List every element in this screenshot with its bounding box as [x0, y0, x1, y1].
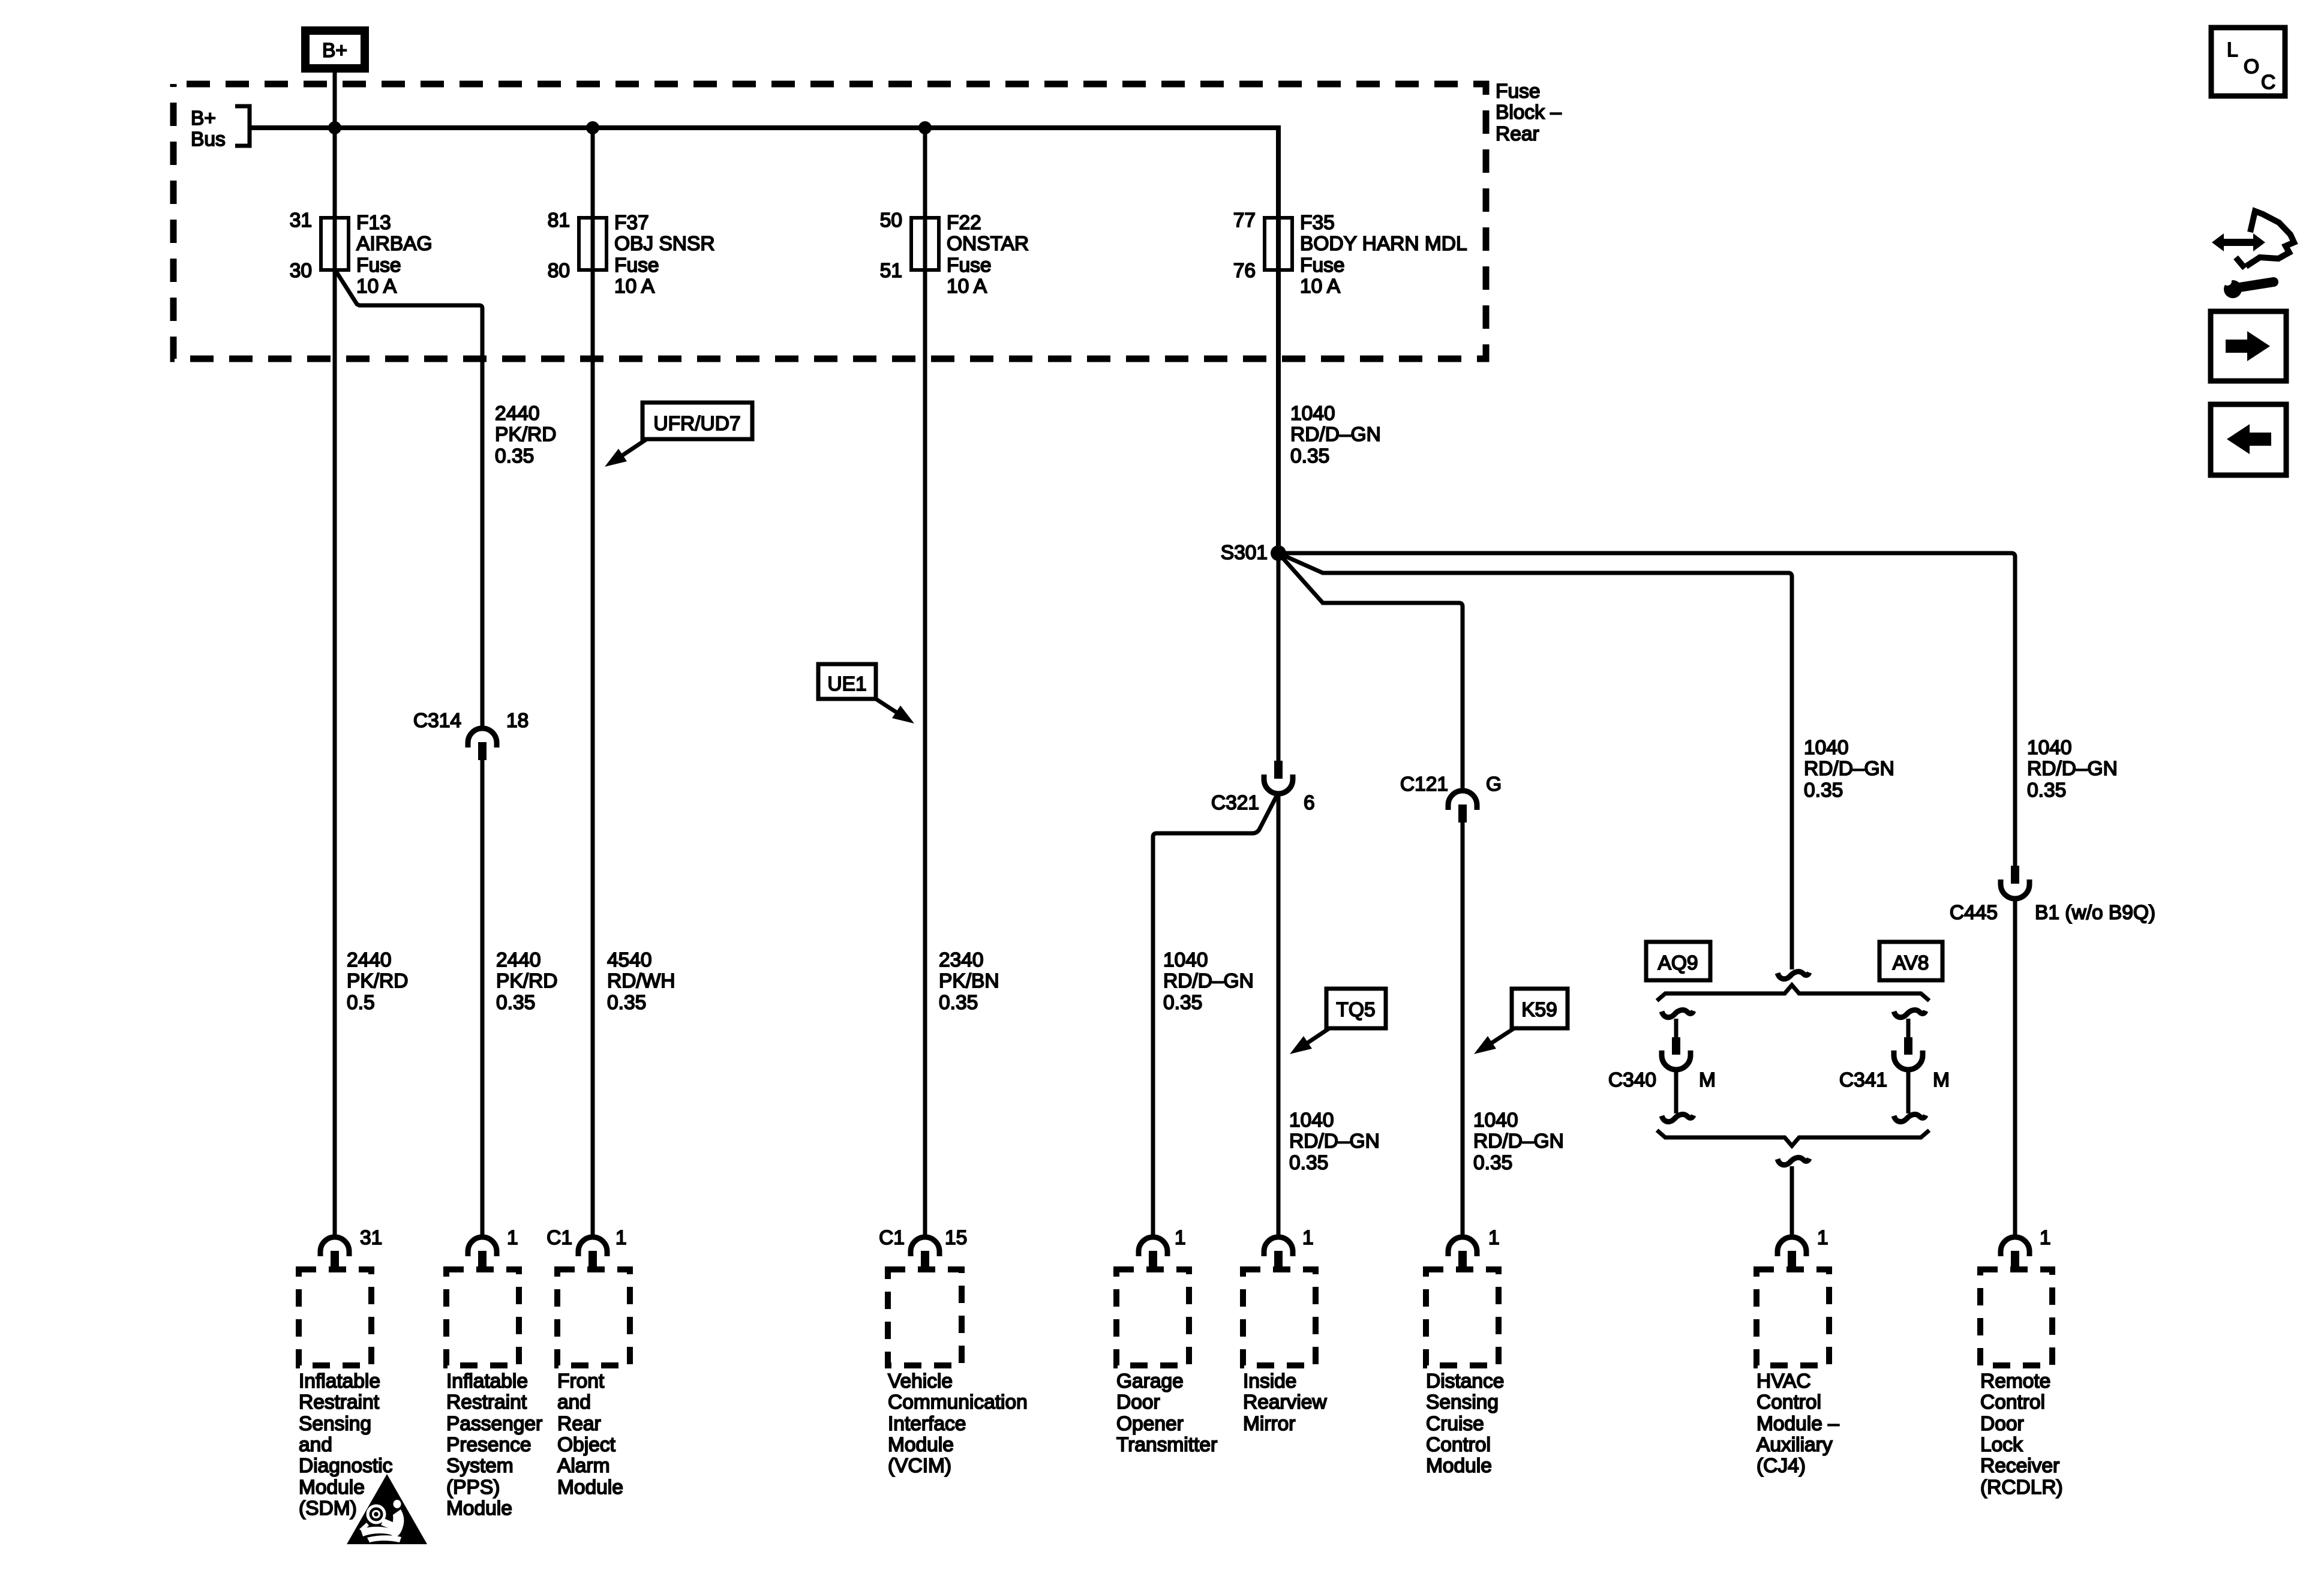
svg-text:2440: 2440 — [495, 403, 540, 425]
svg-text:2340: 2340 — [939, 949, 984, 971]
svg-text:2440: 2440 — [347, 949, 392, 971]
brace (top) spanning AQ9/AV8 — [1657, 985, 1929, 1001]
svg-text:1040: 1040 — [1804, 737, 1849, 759]
svg-text:C1: C1 — [879, 1227, 905, 1249]
wire: F13 pin 30 branch to PPS (2440 PK/RD 0.35) — [336, 271, 482, 730]
svg-text:Module: Module — [446, 1497, 512, 1520]
module pin connector (Inflatable Restraint Sensing and Diagnostic Module (SDM)) — [320, 1227, 382, 1269]
svg-text:1: 1 — [615, 1227, 627, 1249]
module label: Vehicle Communication Interface Module (VCIM) — [888, 1370, 1028, 1477]
module label: Garage Door Opener Transmitter — [1116, 1370, 1217, 1456]
svg-text:81: 81 — [548, 209, 570, 232]
svg-text:Sensing: Sensing — [1426, 1391, 1499, 1413]
svg-text:0.35: 0.35 — [1290, 445, 1329, 467]
wire label 2440 PK/RD 0.5 — [347, 949, 408, 1014]
svg-text:Fuse: Fuse — [1300, 254, 1344, 277]
svg-text:31: 31 — [360, 1227, 382, 1249]
module pin connector (Vehicle Communication Interface Module (VCIM)) — [879, 1227, 967, 1269]
fuse F35 (BODY HARN MDL Fuse 10 A) — [1233, 209, 1467, 298]
svg-text:Garage: Garage — [1116, 1370, 1184, 1392]
svg-text:PK/BN: PK/BN — [939, 970, 999, 992]
module pin connector (Remote Control Door Lock Receiver (RCDLR)) — [2001, 1227, 2051, 1269]
wire: F22 to VCIM (2340 PK/BN 0.35) — [923, 128, 927, 1239]
svg-text:51: 51 — [880, 260, 902, 282]
svg-text:Fuse: Fuse — [614, 254, 659, 277]
svg-text:Bus: Bus — [191, 128, 226, 151]
svg-text:4540: 4540 — [607, 949, 652, 971]
splice node S301 — [1221, 542, 1286, 564]
node: bus junction at F37 — [586, 121, 599, 134]
svg-text:Interface: Interface — [888, 1413, 966, 1435]
wire: B+ bus horizontal — [250, 125, 1278, 130]
svg-text:Module: Module — [1426, 1455, 1492, 1477]
node: bus junction at F13 — [328, 121, 341, 134]
svg-text:System: System — [446, 1455, 514, 1477]
wire: F37 to Front/Rear Object Alarm Module (4540 RD/WH 0.35) — [591, 128, 595, 1239]
svg-text:77: 77 — [1233, 209, 1256, 232]
svg-text:C314: C314 — [413, 710, 461, 732]
module pin connector (Inflatable Restraint Passenger Presence System (PPS) Module) — [468, 1227, 518, 1269]
svg-text:18: 18 — [506, 710, 529, 732]
svg-text:F13: F13 — [356, 212, 391, 234]
svg-text:Module: Module — [299, 1476, 365, 1499]
svg-text:0.35: 0.35 — [1473, 1152, 1512, 1174]
svg-text:RD/D–GN: RD/D–GN — [2027, 758, 2118, 780]
svg-text:Diagnostic: Diagnostic — [299, 1455, 392, 1477]
svg-text:6: 6 — [1304, 792, 1315, 814]
svg-text:Door: Door — [1116, 1391, 1160, 1413]
svg-text:UFR/UD7: UFR/UD7 — [653, 413, 740, 435]
wire: brace to HVAC module — [1790, 1166, 1794, 1239]
svg-text:Fuse: Fuse — [947, 254, 991, 277]
svg-text:1: 1 — [1175, 1227, 1186, 1249]
svg-text:UE1: UE1 — [827, 673, 866, 695]
svg-text:RD/D–GN: RD/D–GN — [1804, 758, 1894, 780]
break symbol below C340 — [1662, 1115, 1694, 1122]
break symbol above C341 — [1894, 1010, 1926, 1017]
break symbol above C340 — [1662, 1010, 1694, 1017]
svg-text:1040: 1040 — [1163, 949, 1208, 971]
svg-text:Inside: Inside — [1243, 1370, 1296, 1392]
svg-text:C340: C340 — [1608, 1069, 1656, 1091]
svg-text:C121: C121 — [1400, 773, 1448, 795]
svg-text:Object: Object — [557, 1434, 616, 1456]
svg-text:Rearview: Rearview — [1243, 1391, 1327, 1413]
svg-text:Control: Control — [1756, 1391, 1821, 1413]
svg-text:C341: C341 — [1839, 1069, 1887, 1091]
svg-text:PK/RD: PK/RD — [495, 424, 556, 446]
svg-text:C1: C1 — [547, 1227, 572, 1249]
circuit label K59 callout box — [1474, 989, 1568, 1054]
fuse block label — [1496, 80, 1562, 145]
circuit label UE1 callout box — [818, 664, 914, 724]
connector C314 pin 18 — [413, 710, 529, 760]
svg-text:Presence: Presence — [446, 1434, 532, 1456]
node: bus junction at F22 — [918, 121, 932, 134]
svg-text:S301: S301 — [1221, 542, 1268, 564]
break symbol below C341 — [1894, 1115, 1926, 1122]
svg-text:Control: Control — [1980, 1391, 2045, 1413]
svg-text:0.35: 0.35 — [607, 992, 646, 1014]
svg-text:1: 1 — [1817, 1227, 1828, 1249]
svg-text:(VCIM): (VCIM) — [888, 1455, 951, 1477]
svg-text:Receiver: Receiver — [1980, 1455, 2059, 1477]
wire label 2440 PK/RD 0.35 (upper) — [495, 403, 556, 467]
wire: B+ feed into fuse F13 — [333, 73, 337, 270]
connector C121 pin G — [1400, 773, 1502, 822]
svg-text:Alarm: Alarm — [557, 1455, 609, 1477]
svg-text:L: L — [2227, 39, 2238, 61]
svg-text:80: 80 — [548, 260, 570, 282]
svg-text:Passenger: Passenger — [446, 1413, 542, 1435]
svg-text:Front: Front — [557, 1370, 605, 1392]
fuse F22 (ONSTAR Fuse 10 A) — [880, 209, 1029, 298]
module box: Front and Rear Object Alarm Module — [557, 1269, 630, 1365]
connector C321 pin 6 — [1211, 761, 1315, 814]
svg-text:HVAC: HVAC — [1756, 1370, 1811, 1392]
svg-text:Restraint: Restraint — [299, 1391, 380, 1413]
svg-text:(PPS): (PPS) — [446, 1476, 500, 1499]
wire: C121 to Distance Sensing module — [1461, 822, 1465, 1239]
module box: Inflatable Restraint Passenger Presence System (PPS) Module — [446, 1269, 519, 1365]
svg-text:G: G — [1486, 773, 1502, 795]
module pin connector (Garage Door Opener Transmitter) — [1139, 1227, 1186, 1269]
B+ bus label — [191, 107, 226, 151]
svg-text:RD/D–GN: RD/D–GN — [1473, 1130, 1564, 1152]
svg-text:and: and — [557, 1391, 591, 1413]
svg-text:10 A: 10 A — [947, 275, 987, 298]
wire below C340 — [1674, 1068, 1679, 1113]
svg-text:Transmitter: Transmitter — [1116, 1434, 1217, 1456]
svg-text:Distance: Distance — [1426, 1370, 1504, 1392]
svg-text:1040: 1040 — [2027, 737, 2072, 759]
wire label 2440 PK/RD 0.35 (lower) — [496, 949, 557, 1014]
svg-text:2440: 2440 — [496, 949, 541, 971]
svg-text:0.35: 0.35 — [1289, 1152, 1328, 1174]
wire: C321 to Inside Rearview Mirror — [1277, 792, 1281, 1239]
fuse F37 (OBJ SNSR Fuse 10 A) — [548, 209, 715, 298]
svg-text:BODY HARN MDL: BODY HARN MDL — [1300, 233, 1467, 255]
module pin connector (Distance Sensing Cruise Control Module) — [1448, 1227, 1500, 1269]
svg-text:B+: B+ — [322, 40, 347, 62]
module box: HVAC Control Module - Auxiliary (CJ4) — [1756, 1269, 1829, 1365]
fuse F13 (AIRBAG Fuse 10 A) — [290, 209, 433, 298]
module box: Inside Rearview Mirror — [1243, 1269, 1316, 1365]
circuit label UFR/UD7 callout box — [605, 403, 752, 467]
svg-text:B1 (w/o B9Q): B1 (w/o B9Q) — [2035, 902, 2155, 924]
svg-text:RD/WH: RD/WH — [607, 970, 675, 992]
svg-text:0.35: 0.35 — [496, 992, 535, 1014]
svg-text:50: 50 — [880, 209, 902, 232]
svg-text:F22: F22 — [947, 212, 981, 234]
wire: S301 to HVAC branch — [1278, 553, 1792, 969]
svg-text:RD/D–GN: RD/D–GN — [1289, 1130, 1380, 1152]
svg-text:(SDM): (SDM) — [299, 1497, 357, 1520]
wire label 1040 RD/D-GN 0.35 (HVAC branch) — [1804, 737, 1894, 801]
wire: S301 to C445/RCDLR (top branch) — [1278, 553, 2015, 867]
svg-text:Module: Module — [888, 1434, 954, 1456]
brace (bottom) spanning C340/C341 — [1657, 1130, 1929, 1146]
svg-text:Rear: Rear — [1496, 123, 1539, 145]
svg-text:10 A: 10 A — [1300, 275, 1341, 298]
svg-text:0.35: 0.35 — [1804, 779, 1843, 801]
svg-text:RD/D–GN: RD/D–GN — [1163, 970, 1254, 992]
wire label 1040 RD/D-GN 0.35 (RCDLR branch) — [2027, 737, 2118, 801]
svg-text:C321: C321 — [1211, 792, 1259, 814]
svg-text:(RCDLR): (RCDLR) — [1980, 1476, 2063, 1499]
svg-text:OBJ SNSR: OBJ SNSR — [614, 233, 715, 255]
wire label 1040 RD/D-GN 0.35 (mirror branch) — [1289, 1109, 1380, 1174]
svg-text:0.35: 0.35 — [2027, 779, 2066, 801]
svg-text:0.35: 0.35 — [939, 992, 978, 1014]
module pin connector (Front and Rear Object Alarm Module) — [547, 1227, 626, 1269]
module box: Vehicle Communication Interface Module (VCIM) — [888, 1269, 962, 1365]
svg-text:Module: Module — [557, 1476, 623, 1499]
svg-text:0.35: 0.35 — [495, 445, 534, 467]
svg-text:O: O — [2244, 56, 2259, 78]
svg-text:C445: C445 — [1950, 902, 1998, 924]
svg-text:Inflatable: Inflatable — [299, 1370, 380, 1392]
svg-text:Block –: Block – — [1496, 101, 1562, 124]
svg-text:AIRBAG: AIRBAG — [356, 233, 433, 255]
wire: C445 to RCDLR module — [2013, 897, 2017, 1239]
module pin connector (Inside Rearview Mirror) — [1264, 1227, 1314, 1269]
svg-text:15: 15 — [945, 1227, 967, 1249]
svg-text:76: 76 — [1233, 260, 1256, 282]
module box: Garage Door Opener Transmitter — [1116, 1269, 1189, 1365]
svg-text:K59: K59 — [1521, 999, 1557, 1021]
svg-text:Control: Control — [1426, 1434, 1491, 1456]
service icon (animal head, double arrow, wrench) — [2212, 211, 2294, 298]
svg-text:30: 30 — [290, 260, 312, 282]
connector C341 pin M — [1839, 1037, 1950, 1091]
svg-text:and: and — [299, 1434, 332, 1456]
fuse block - rear dashed box — [173, 84, 1486, 359]
svg-text:B+: B+ — [191, 107, 216, 130]
svg-text:AV8: AV8 — [1893, 952, 1929, 974]
svg-text:0.5: 0.5 — [347, 992, 375, 1014]
wire label 1040 RD/D-GN 0.35 (distance branch) — [1473, 1109, 1564, 1174]
svg-text:RD/D–GN: RD/D–GN — [1290, 424, 1381, 446]
svg-text:1040: 1040 — [1289, 1109, 1334, 1131]
svg-text:1: 1 — [2040, 1227, 2051, 1249]
svg-text:Fuse: Fuse — [1496, 80, 1540, 103]
wire: F13 pin 30 to SDM (2440 PK/RD 0.5) — [333, 270, 337, 1239]
wire label 1040 RD/D-GN 0.35 (below F35) — [1290, 403, 1381, 467]
wire below C341 — [1906, 1068, 1911, 1113]
svg-text:F37: F37 — [614, 212, 649, 234]
svg-text:10 A: 10 A — [614, 275, 655, 298]
svg-text:1040: 1040 — [1473, 1109, 1518, 1131]
svg-text:1: 1 — [507, 1227, 518, 1249]
svg-text:Mirror: Mirror — [1243, 1413, 1295, 1435]
wire label 2340 PK/BN 0.35 — [939, 949, 999, 1014]
svg-text:Vehicle: Vehicle — [888, 1370, 953, 1392]
svg-text:Lock: Lock — [1980, 1434, 2023, 1456]
svg-text:Cruise: Cruise — [1426, 1413, 1484, 1435]
wire into C341 — [1906, 1019, 1911, 1037]
forward reference arrow box — [2211, 311, 2286, 381]
svg-text:ONSTAR: ONSTAR — [947, 233, 1029, 255]
svg-text:Restraint: Restraint — [446, 1391, 527, 1413]
svg-text:Fuse: Fuse — [356, 254, 401, 277]
svg-text:PK/RD: PK/RD — [496, 970, 557, 992]
wire label 4540 RD/WH 0.35 — [607, 949, 675, 1014]
break symbol above AQ9/AV8 brace — [1777, 972, 1809, 979]
svg-text:M: M — [1933, 1069, 1950, 1091]
module label: Front and Rear Object Alarm Module — [557, 1370, 623, 1499]
LOC reference box — [2211, 28, 2285, 96]
svg-text:31: 31 — [290, 209, 312, 232]
svg-text:TQ5: TQ5 — [1336, 999, 1375, 1021]
airbag caution symbol (SDM) — [347, 1474, 427, 1544]
wire: S301 down to C321 — [1277, 553, 1281, 761]
wire: C321 branch to Garage Door Opener (1040 RD/D-GN 0.35) — [1153, 792, 1278, 1239]
wire: C314 to PPS module — [481, 760, 485, 1239]
module label: HVAC Control Module - Auxiliary (CJ4) — [1756, 1370, 1839, 1477]
svg-text:M: M — [1699, 1069, 1716, 1091]
svg-text:Communication: Communication — [888, 1391, 1028, 1413]
svg-text:Door: Door — [1980, 1413, 2024, 1435]
module box: Distance Sensing Cruise Control Module — [1426, 1269, 1499, 1365]
wire into C340 — [1674, 1019, 1679, 1037]
option label AV8 box — [1879, 942, 1942, 980]
svg-text:Inflatable: Inflatable — [446, 1370, 528, 1392]
svg-text:Rear: Rear — [557, 1413, 601, 1435]
module label: Remote Control Door Lock Receiver (RCDLR) — [1980, 1370, 2063, 1499]
svg-text:F35: F35 — [1300, 212, 1335, 234]
module label: Distance Sensing Cruise Control Module — [1426, 1370, 1504, 1477]
svg-text:AQ9: AQ9 — [1658, 952, 1698, 974]
circuit label TQ5 callout box — [1290, 989, 1386, 1054]
module pin connector (HVAC Control Module - Auxiliary (CJ4)) — [1777, 1227, 1828, 1269]
module box: Remote Control Door Lock Receiver (RCDLR) — [1980, 1269, 2052, 1365]
svg-text:PK/RD: PK/RD — [347, 970, 408, 992]
svg-text:(CJ4): (CJ4) — [1756, 1455, 1806, 1477]
module label: Inflatable Restraint Sensing and Diagnostic Module (SDM) — [299, 1370, 392, 1520]
svg-text:Remote: Remote — [1980, 1370, 2050, 1392]
svg-text:Auxiliary: Auxiliary — [1756, 1434, 1833, 1456]
svg-text:Module –: Module – — [1756, 1413, 1839, 1435]
B+ bus bracket — [235, 106, 250, 146]
svg-text:1040: 1040 — [1290, 403, 1335, 425]
option label AQ9 box — [1646, 942, 1710, 980]
svg-text:0.35: 0.35 — [1163, 992, 1202, 1014]
wire: S301 to C121 (distance sensing branch) — [1278, 553, 1463, 792]
module label: Inside Rearview Mirror — [1243, 1370, 1327, 1435]
module box: Inflatable Restraint Sensing and Diagnostic Module (SDM) — [299, 1269, 371, 1365]
svg-text:Sensing: Sensing — [299, 1413, 371, 1435]
module label: Inflatable Restraint Passenger Presence System (PPS) Module — [446, 1370, 542, 1520]
B+ power symbol — [305, 31, 365, 68]
wire: bus corner down through F35 to S301 (1040 RD/D-GN 0.35) — [1276, 125, 1281, 553]
svg-text:1: 1 — [1302, 1227, 1314, 1249]
svg-text:Opener: Opener — [1116, 1413, 1184, 1435]
svg-text:10 A: 10 A — [356, 275, 397, 298]
break symbol below bottom brace — [1777, 1158, 1809, 1165]
backward reference arrow box — [2211, 404, 2286, 475]
connector C340 pin M — [1608, 1037, 1716, 1091]
svg-text:1: 1 — [1488, 1227, 1500, 1249]
connector C445 pin B1 — [1950, 866, 2155, 924]
wire label 1040 RD/D-GN 0.35 (GDO branch) — [1163, 949, 1254, 1014]
svg-text:C: C — [2261, 71, 2275, 94]
